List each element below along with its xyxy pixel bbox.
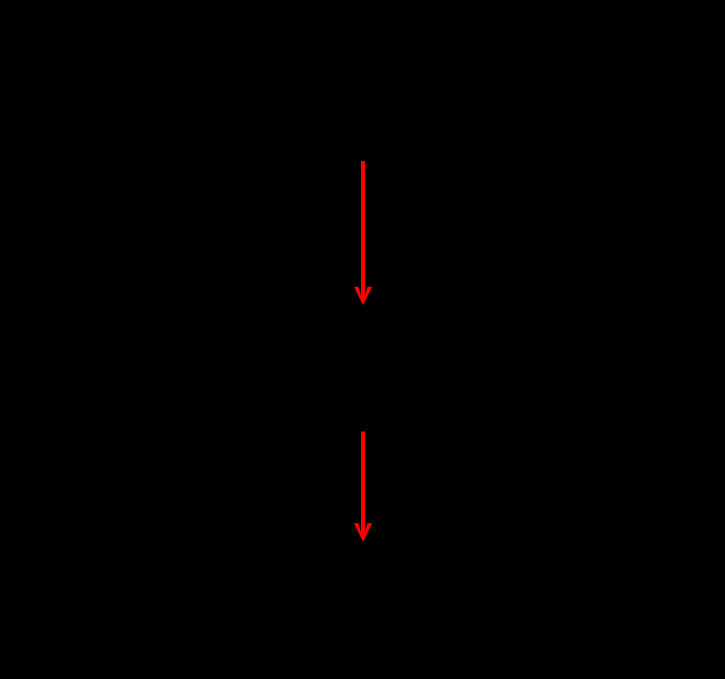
arrow 2 shaft (361, 432, 365, 535)
arrow 2 head (354, 523, 372, 542)
arrow 1 head (354, 287, 372, 306)
reaction arrow 1 (red, downward) (354, 161, 372, 305)
reaction arrow 2 (red, downward) (354, 432, 372, 542)
arrow 1 shaft (361, 161, 365, 298)
